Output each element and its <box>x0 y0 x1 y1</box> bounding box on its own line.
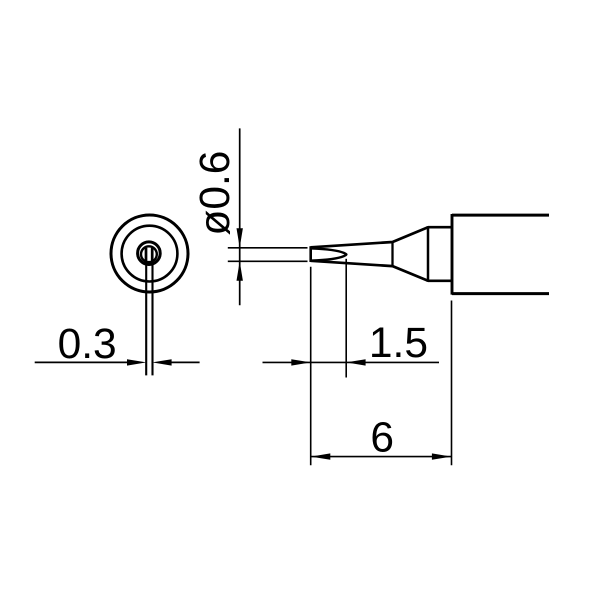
svg-text:ø0.6: ø0.6 <box>192 151 239 236</box>
svg-text:1.5: 1.5 <box>369 320 428 367</box>
svg-text:6: 6 <box>370 414 394 461</box>
svg-text:0.3: 0.3 <box>58 321 117 368</box>
